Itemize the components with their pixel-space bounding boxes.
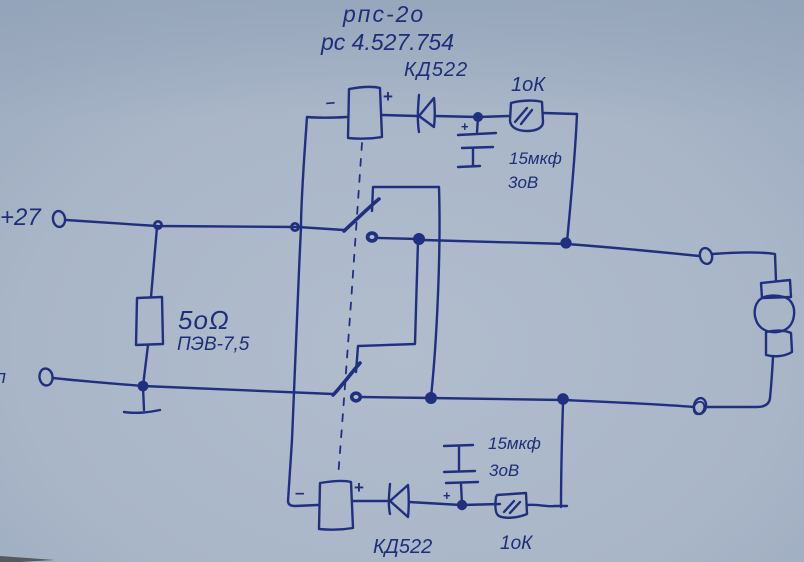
svg-text:рс 4.527.754: рс 4.527.754 [320,29,454,55]
svg-text:+27: +27 [0,204,42,231]
wire: terminal to device top [712,253,776,282]
resistor R2 (10K, bottom) [495,493,527,518]
terminal circle (top right) [698,247,714,266]
svg-text:15мкф: 15мкф [488,434,541,453]
node: +27/left bus junction dot [291,223,298,230]
capacitor C2 (15мкФ 30В, bottom) [444,445,478,504]
svg-text:+: + [443,488,451,503]
terminal +27 circle [52,210,66,228]
switch blade S1 (upper contact) [344,199,379,231]
dark photo edge bottom-left [0,556,55,562]
load device middle body [755,296,795,333]
resistor R1 (10K, top) [510,101,543,131]
wire: lower coil to diode VD2 [353,500,387,502]
svg-text:+: + [461,119,469,134]
svg-text:–: – [295,483,304,502]
resistor R3 (50Ω ПЭВ-7,5) stem top [151,227,157,297]
wire: device bottom to lower terminal [707,357,773,407]
node C junction dot [414,234,424,244]
contact terminal (upper fixed contact) [368,233,377,241]
diode VD2 (КД522, bottom) [389,484,409,517]
node: 0/R3 junction dot [139,382,147,390]
wire: top-left bend from relay coil K1 down left side [307,116,347,119]
wire: diode VD2 to node F [409,502,461,505]
wire: diode VD1 to node A [435,116,478,117]
svg-text:КД522: КД522 [404,59,468,81]
node A junction dot [474,113,482,121]
terminal 0 circle (left lower) [38,368,53,387]
wire: resistor R2 right and up to node E [527,403,567,507]
svg-text:1оК: 1оК [511,74,546,96]
wire: node A to resistor R1 [478,116,509,117]
capacitor C1 (15мкФ 30В, top) [458,118,496,167]
svg-text:–: – [325,92,336,112]
svg-text:15мкф: 15мкф [509,149,562,168]
svg-text:+: + [354,478,364,497]
wire: left vertical bus [288,117,318,506]
svg-text:1оК: 1оК [500,533,534,554]
svg-text:3оВ: 3оВ [508,173,538,192]
wire: lower output line from contact to terminal [361,397,694,407]
svg-text:рпс-2о: рпс-2о [342,1,425,27]
ground symbol [124,387,160,413]
wire: 0 rail [53,378,333,394]
svg-text:5оΩ: 5оΩ [178,305,230,335]
svg-text:3оВ: 3оВ [489,461,519,480]
load device (right side) top cap [761,280,791,298]
node B junction dot (top output) [562,239,571,248]
node E junction dot (lower output / right branch) [558,394,567,403]
terminal circle (bottom right) [692,397,708,416]
wire: +27 rail [66,220,344,230]
resistor R3 body [136,297,163,345]
dashed mechanical link of relay contacts [338,143,362,478]
node F junction dot [458,501,466,509]
resistor R3 stem bottom [143,345,148,386]
relay coil K1 (lower winding) [319,481,353,530]
svg-text:+: + [383,87,393,106]
svg-text:КД522: КД522 [373,536,432,558]
wire: upper output to node C [379,238,418,239]
switch blade S2 (lower contact) [333,363,360,395]
wire: resistor R1 to right corner and down [543,113,577,242]
relay coil K1 (upper winding) [348,87,382,139]
wire: lower blade tip step up to node C [356,241,418,372]
load device bottom cap [766,331,792,357]
wire: upper blade tip loop to lower output (right of loop) [372,187,440,397]
node D junction dot (loop meets lower output) [426,393,436,403]
contact terminal (lower fixed contact) [352,393,361,401]
diode VD1 (КД522, top) [418,95,435,132]
wire: node F to resistor R2 [462,504,500,505]
wire: node C to node B to terminal [423,240,699,256]
svg-text:п: п [0,367,6,387]
wire: coil K1 to diode VD1 [382,115,417,116]
node: +27/R3 junction dot [154,221,161,228]
svg-text:ПЭВ-7,5: ПЭВ-7,5 [177,334,250,355]
